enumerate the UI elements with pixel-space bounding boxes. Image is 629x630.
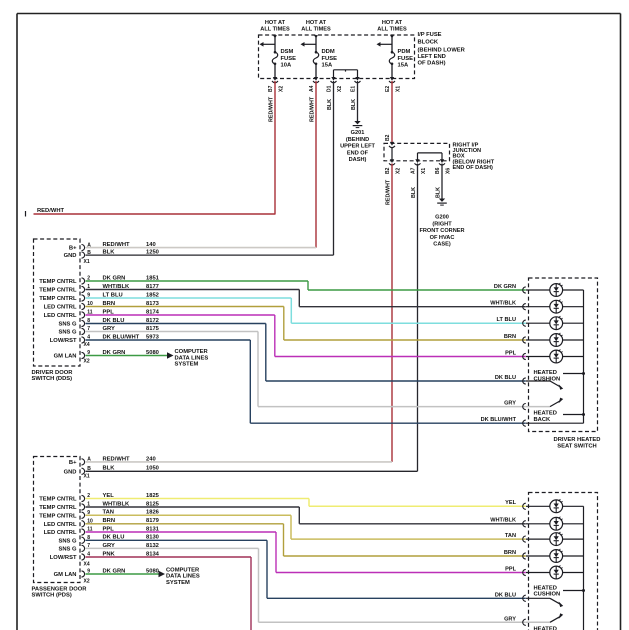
svg-text:HEATED: HEATED: [534, 411, 557, 417]
svg-text:HEATED: HEATED: [534, 370, 557, 376]
svg-text:CUSHION: CUSHION: [534, 592, 561, 598]
svg-text:I/P FUSE: I/P FUSE: [418, 32, 442, 38]
svg-text:GND: GND: [64, 469, 77, 475]
junction box internal ground bridge A7-X6: [418, 153, 443, 161]
pin B (GND): [64, 250, 92, 259]
svg-text:X2: X2: [396, 168, 402, 174]
wire BLK 1250 (DDS pin B up to fuse block D1): [86, 250, 334, 256]
wire GRY 8132 (sense ground): [86, 543, 526, 623]
ground G201: [340, 119, 375, 163]
svg-text:HOT AT: HOT AT: [265, 20, 286, 26]
svg-text:ALL TIMES: ALL TIMES: [260, 27, 290, 33]
driver heated seat switch (dashed enclosure): [529, 278, 601, 449]
svg-text:E1: E1: [351, 86, 357, 92]
svg-text:DATA LINES: DATA LINES: [175, 355, 209, 361]
svg-text:ALL TIMES: ALL TIMES: [377, 27, 407, 33]
fuse block pin A4: [309, 77, 319, 92]
svg-text:GM LAN: GM LAN: [54, 354, 77, 360]
wire RED/WHT from PDM fuse to junction box pin B2: [385, 81, 392, 143]
junction box pin A7/X1: [411, 159, 427, 174]
svg-text:LED CNTRL: LED CNTRL: [44, 313, 77, 319]
svg-text:X6: X6: [446, 168, 452, 174]
fuse block pin D1/X2: [327, 77, 343, 92]
wire DK BLU 8130 (sense ground): [86, 535, 526, 599]
svg-text:DK BLU: DK BLU: [495, 375, 516, 381]
svg-text:YEL: YEL: [505, 500, 516, 506]
svg-text:DK BLU: DK BLU: [495, 592, 516, 598]
svg-text:DASH): DASH): [349, 157, 367, 163]
svg-text:SNS G: SNS G: [58, 546, 77, 552]
svg-text:SYSTEM: SYSTEM: [175, 362, 199, 368]
junction box internal wire B2: [391, 148, 393, 161]
svg-text:LEFT END: LEFT END: [418, 54, 446, 60]
pin 9 (GM LAN): [54, 350, 91, 359]
svg-text:PPL: PPL: [505, 350, 516, 356]
svg-text:LOW/RST: LOW/RST: [50, 555, 77, 561]
svg-text:FUSE: FUSE: [281, 56, 297, 62]
fuse PDM 15A: [377, 20, 414, 79]
svg-text:TEMP CNTRL: TEMP CNTRL: [39, 513, 77, 519]
wire GRY 8175 (sense ground): [86, 326, 526, 407]
svg-text:TEMP CNTRL: TEMP CNTRL: [39, 296, 77, 302]
wire BRN 8179 (LED control): [86, 518, 526, 556]
svg-text:X2: X2: [337, 86, 343, 92]
indicator LED (LT BLU) driver: [497, 316, 584, 330]
svg-text:G200: G200: [435, 215, 449, 221]
heated back switch (passenger): [504, 613, 563, 630]
svg-text:BLK: BLK: [436, 187, 442, 198]
wire BLK from junction box X6 to ground G200: [436, 164, 443, 199]
fuse block pin E2/X1: [385, 77, 401, 92]
svg-text:X4: X4: [84, 561, 90, 567]
svg-text:LT BLU: LT BLU: [497, 317, 516, 323]
svg-text:PDM: PDM: [398, 49, 411, 55]
svg-text:GRY: GRY: [504, 400, 516, 406]
svg-text:X2: X2: [279, 86, 285, 92]
pin 11 (LED CNTRL): [44, 310, 93, 319]
connector label X1: [84, 473, 90, 479]
svg-text:(BEHIND: (BEHIND: [346, 137, 369, 143]
svg-text:FUSE: FUSE: [322, 56, 338, 62]
svg-text:WHT/BLK: WHT/BLK: [490, 518, 516, 524]
pin A (B+): [69, 242, 91, 251]
wire RED/WHT from junction box down to PDS pin A: [386, 164, 393, 462]
fuse block pin E1: [351, 77, 361, 92]
heated back switch (driver): [504, 398, 585, 423]
svg-text:TEMP CNTRL: TEMP CNTRL: [39, 497, 77, 503]
svg-text:TEMP CNTRL: TEMP CNTRL: [39, 288, 77, 294]
svg-text:GM LAN: GM LAN: [54, 572, 77, 578]
svg-text:WHT/BLK: WHT/BLK: [490, 301, 516, 307]
wire LT BLU 1852 (temp control): [86, 292, 526, 323]
svg-text:TAN: TAN: [505, 533, 516, 539]
svg-text:LED CNTRL: LED CNTRL: [44, 522, 77, 528]
wire DK GRN 5080 GMLAN to computer data lines (driver): [86, 349, 209, 368]
svg-text:BLK: BLK: [411, 187, 417, 198]
seat switch supply bus (passenger): [583, 506, 585, 630]
pin 4 (LOW/RST): [50, 552, 90, 561]
svg-text:BACK: BACK: [534, 417, 552, 423]
indicator LED (WHT/BLK) driver: [490, 300, 583, 314]
wire BLK from junction box A7 down to PDS pin B: [411, 164, 418, 472]
svg-text:G201: G201: [351, 130, 365, 136]
svg-text:X2: X2: [84, 359, 90, 365]
svg-text:B+: B+: [69, 246, 77, 252]
pin A (B+): [69, 457, 91, 466]
svg-text:TEMP CNTRL: TEMP CNTRL: [39, 505, 77, 511]
pin 9 (TEMP CNTRL): [39, 510, 90, 519]
wire PNK 8134 (low/reset): [86, 551, 252, 630]
wire RED/WHT 140 (DDS pin A to DDM fuse): [86, 242, 317, 248]
indicator LED (BRN) driver: [504, 333, 584, 347]
svg-text:X2: X2: [84, 579, 90, 585]
right I/P junction box (dashed enclosure): [384, 142, 495, 171]
svg-text:X1: X1: [84, 473, 90, 479]
connector label X2: [84, 359, 90, 365]
svg-text:DK GRN: DK GRN: [494, 284, 516, 290]
svg-text:OF HVAC: OF HVAC: [430, 235, 455, 241]
svg-text:DRIVER HEATED: DRIVER HEATED: [554, 437, 601, 443]
svg-text:X1: X1: [84, 259, 90, 265]
svg-text:HEATED: HEATED: [534, 586, 557, 592]
svg-text:SNS G: SNS G: [58, 330, 77, 336]
svg-text:X1: X1: [396, 86, 402, 92]
svg-text:SYSTEM: SYSTEM: [166, 580, 190, 586]
wire BLK from E1 to ground G201: [351, 81, 358, 119]
connector label X4: [84, 342, 90, 348]
svg-text:B6: B6: [435, 167, 441, 174]
svg-text:ALL TIMES: ALL TIMES: [301, 27, 331, 33]
fuse DSM 10A: [260, 20, 297, 79]
svg-text:HOT AT: HOT AT: [306, 20, 327, 26]
svg-text:HEATED: HEATED: [534, 626, 557, 630]
wire YEL 1825 (temp control): [86, 493, 526, 506]
connector label X2: [84, 579, 90, 585]
pin 9 (GM LAN): [54, 569, 91, 578]
svg-text:PPL: PPL: [505, 566, 516, 572]
wire RED/WHT feed to left edge: [26, 208, 276, 217]
wire BRN 8173 (LED control): [86, 301, 526, 340]
wire DK GRN 1851 (temp control): [86, 275, 526, 290]
svg-text:E2: E2: [385, 86, 391, 92]
seat switch supply bus (driver): [583, 290, 585, 423]
svg-text:HOT AT: HOT AT: [382, 20, 403, 26]
connector label X1: [84, 259, 90, 265]
svg-text:TEMP CNTRL: TEMP CNTRL: [39, 279, 77, 285]
pin B (GND): [64, 466, 92, 475]
wire TAN 1826 (temp control): [86, 510, 526, 539]
junction box pin B2/X2: [385, 159, 401, 174]
svg-text:LED CNTRL: LED CNTRL: [44, 530, 77, 536]
wire RED/WHT from DSM fuse down to left feed: [269, 81, 276, 214]
svg-text:X4: X4: [84, 342, 90, 348]
svg-text:BRN: BRN: [504, 334, 516, 340]
pin 1 (TEMP CNTRL): [39, 284, 90, 293]
svg-text:SEAT SWITCH: SEAT SWITCH: [557, 443, 597, 449]
svg-text:UPPER LEFT: UPPER LEFT: [340, 144, 375, 150]
svg-text:RED/WHT: RED/WHT: [37, 208, 65, 214]
wire WHT/BLK 8177 (temp control): [86, 284, 526, 307]
indicator LED (PPL) passenger: [505, 565, 583, 579]
svg-text:END OF: END OF: [347, 150, 369, 156]
wire PPL 8131 (LED control): [86, 526, 526, 572]
wire RED/WHT from DDM fuse down to DDS pin A: [310, 81, 317, 248]
svg-text:SWITCH (PDS): SWITCH (PDS): [32, 592, 72, 598]
pin 8 (SNS G): [58, 535, 90, 544]
svg-text:FUSE: FUSE: [398, 56, 414, 62]
svg-text:SNS G: SNS G: [58, 322, 77, 328]
wire WHT/BLK 8125 (temp control): [86, 501, 526, 523]
wire BLK from D1 down to DDS pin B: [327, 81, 334, 255]
pin 1 (TEMP CNTRL): [39, 502, 90, 511]
junction box top pin B2: [389, 142, 395, 148]
svg-text:10A: 10A: [281, 63, 292, 69]
pin 10 (LED CNTRL): [44, 301, 93, 310]
svg-text:BLK: BLK: [327, 99, 333, 110]
svg-text:COMPUTER: COMPUTER: [175, 349, 209, 355]
heated cushion switch (driver): [495, 370, 585, 390]
pin 2 (TEMP CNTRL): [39, 493, 90, 502]
indicator LED (WHT/BLK) passenger: [490, 517, 583, 531]
svg-text:DK BLU/WHT: DK BLU/WHT: [481, 417, 517, 423]
svg-text:BLOCK: BLOCK: [418, 40, 439, 46]
pin 2 (TEMP CNTRL): [39, 276, 90, 285]
pin 7 (SNS G): [58, 543, 90, 552]
svg-text:DDM: DDM: [322, 49, 335, 55]
wire DK GRN 5080 GMLAN to computer data lines (passenger): [86, 567, 200, 586]
fuse DDM 15A: [301, 20, 338, 79]
pin 7 (SNS G): [58, 326, 90, 335]
svg-text:A7: A7: [411, 167, 417, 174]
svg-text:15A: 15A: [398, 63, 409, 69]
svg-text:RED/WHT: RED/WHT: [386, 179, 392, 205]
pin 11 (LED CNTRL): [44, 527, 93, 536]
svg-text:OF DASH): OF DASH): [418, 60, 446, 66]
wire DK BLU/WHT 5973 (low/reset): [86, 334, 526, 423]
svg-text:CUSHION: CUSHION: [534, 376, 561, 382]
svg-text:LED CNTRL: LED CNTRL: [44, 305, 77, 311]
indicator LED (DK GRN) driver: [494, 283, 584, 297]
svg-text:X1: X1: [421, 168, 427, 174]
svg-text:15A: 15A: [322, 63, 333, 69]
indicator LED (PPL) driver: [505, 349, 583, 363]
wire DK BLU 8172 (sense ground): [86, 318, 526, 381]
passenger heated seat switch (dashed enclosure): [529, 493, 598, 630]
svg-text:(RIGHT: (RIGHT: [432, 221, 452, 227]
svg-text:B7: B7: [268, 85, 274, 92]
indicator LED (TAN) passenger: [505, 532, 584, 546]
svg-text:GND: GND: [64, 253, 77, 259]
svg-text:END OF DASH): END OF DASH): [453, 165, 494, 171]
svg-text:B+: B+: [69, 460, 77, 466]
fuse block pin B7/X2: [268, 77, 284, 92]
low/reset input row (driver DK BLU/WHT): [481, 417, 584, 426]
svg-text:RED/WHT: RED/WHT: [269, 96, 275, 122]
door switch module SWITCH (PDS) (dashed enclosure): [32, 457, 88, 599]
wire RED/WHT 240 (PDS pin A to junction box): [86, 456, 393, 462]
svg-text:GRY: GRY: [504, 616, 516, 622]
svg-text:(BEHIND LOWER: (BEHIND LOWER: [418, 47, 466, 53]
junction box pin B6/X6: [435, 159, 451, 174]
heated cushion switch (passenger): [495, 586, 585, 608]
wire BLK 1050 (PDS pin B to junction box A7): [86, 466, 418, 472]
indicator LED (BRN) passenger: [504, 549, 584, 563]
pin 10 (LED CNTRL): [44, 519, 93, 528]
fuse block internal ground bridge D1-E1: [334, 70, 358, 79]
svg-text:BRN: BRN: [504, 550, 516, 556]
svg-text:SNS G: SNS G: [58, 538, 77, 544]
wire PPL 8174 (LED control): [86, 309, 526, 356]
svg-text:BLK: BLK: [351, 99, 357, 110]
svg-text:FRONT CORNER: FRONT CORNER: [419, 228, 464, 234]
pin 4 (LOW/RST): [50, 335, 90, 344]
ground G200: [419, 196, 464, 248]
svg-text:SWITCH (DDS): SWITCH (DDS): [32, 376, 73, 382]
svg-text:DSM: DSM: [281, 49, 294, 55]
indicator LED (YEL) passenger: [505, 499, 583, 513]
svg-text:D1: D1: [327, 85, 333, 92]
svg-text:CASE): CASE): [433, 242, 451, 248]
svg-text:DATA LINES: DATA LINES: [166, 574, 200, 580]
svg-text:B2: B2: [385, 134, 391, 141]
svg-text:LOW/RST: LOW/RST: [50, 338, 77, 344]
svg-text:A4: A4: [309, 85, 315, 92]
svg-text:COMPUTER: COMPUTER: [166, 567, 200, 573]
door switch module SWITCH (DDS) (dashed enclosure): [32, 239, 81, 382]
pin 9 (TEMP CNTRL): [39, 293, 90, 302]
connector label X4: [84, 561, 90, 567]
svg-text:B2: B2: [385, 167, 391, 174]
pin 8 (SNS G): [58, 318, 90, 327]
svg-text:RED/WHT: RED/WHT: [310, 96, 316, 122]
I/P fuse block (dashed enclosure): [259, 32, 466, 79]
